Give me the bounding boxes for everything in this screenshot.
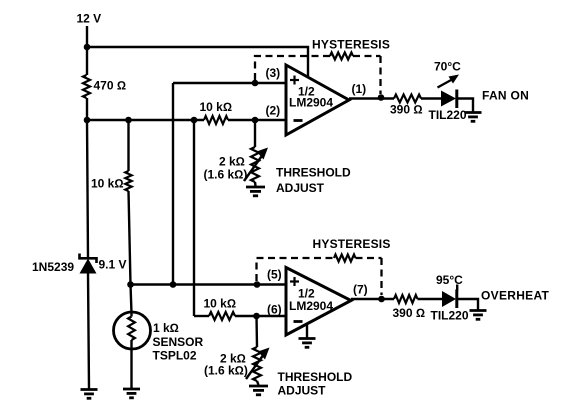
svg-text:390 Ω: 390 Ω	[393, 306, 426, 320]
junction sensor branch at node row	[125, 117, 132, 124]
wire R6 to pin 6	[235, 315, 286, 317]
svg-text:FAN ON: FAN ON	[482, 89, 529, 103]
junction top-left (12V node)	[84, 44, 91, 51]
wire U2 output	[351, 298, 394, 300]
wire 12V top power feed to op-amp U1	[87, 47, 308, 76]
wire pot1 branch	[254, 120, 256, 147]
wire R5 to LED1	[421, 97, 441, 99]
resistor R5 390 ohm	[390, 95, 423, 117]
wire R8 to LED2	[418, 298, 443, 300]
wire pot1 to ground	[254, 182, 257, 186]
ground below zener	[81, 390, 98, 399]
wire pin 5 input row	[131, 283, 287, 285]
wire rail between R1 and 9.1V node	[86, 98, 88, 120]
thermistor sensor RT1 1k TSPL02	[114, 312, 204, 389]
potentiometer R4 2k threshold adjust	[204, 147, 352, 195]
svg-text:12 V: 12 V	[77, 12, 102, 26]
svg-text:(2): (2)	[266, 104, 281, 118]
ground LED2	[470, 311, 487, 320]
resistor R3 10k (to pin 2)	[200, 100, 233, 124]
svg-text:TIL220: TIL220	[429, 108, 467, 122]
svg-text:(3): (3)	[266, 66, 281, 80]
LED D3 TIL220 (overheat indicator)	[431, 285, 469, 323]
node 12V supply label	[77, 12, 102, 26]
pin label (7)	[353, 283, 368, 297]
junction mid vertical B at node row	[191, 117, 198, 124]
svg-text:(6): (6)	[267, 303, 282, 317]
hysteresis feedback network U2 (dashed)	[257, 237, 391, 295]
svg-text:390 Ω: 390 Ω	[390, 103, 423, 117]
svg-text:1 kΩ: 1 kΩ	[153, 321, 179, 335]
svg-text:LM2904: LM2904	[289, 299, 333, 313]
resistor R1 470 ohm	[83, 75, 126, 98]
op-amp U1 1/2 LM2904	[286, 65, 349, 135]
hysteresis feedback network U1 (dashed)	[255, 37, 390, 94]
svg-text:(1.6 kΩ): (1.6 kΩ)	[204, 168, 248, 182]
pin label (3)	[266, 66, 281, 80]
svg-text:THRESHOLD: THRESHOLD	[278, 370, 353, 384]
svg-text:95°C: 95°C	[436, 273, 463, 287]
wire R6 feed corner	[194, 315, 209, 317]
junction U2 output node	[378, 296, 385, 303]
ground below pot1	[246, 187, 265, 196]
svg-text:HYSTERESIS: HYSTERESIS	[312, 37, 390, 51]
wire zener to ground	[88, 274, 89, 390]
svg-text:(7): (7)	[353, 283, 368, 297]
ground LED1	[465, 113, 482, 122]
svg-text:10 kΩ: 10 kΩ	[200, 100, 233, 114]
wire pin 3 input row	[173, 82, 286, 84]
junction sensor node (non-inverting row)	[127, 281, 134, 288]
svg-text:SENSOR: SENSOR	[153, 335, 204, 349]
pin label (6)	[267, 303, 282, 317]
svg-text:TIL220: TIL220	[431, 309, 469, 323]
svg-text:ADJUST: ADJUST	[276, 181, 325, 195]
node label 70C	[434, 60, 461, 74]
wire mid vertical B (node row to R6)	[193, 120, 195, 316]
wire U1 output	[349, 97, 394, 99]
net label FAN ON	[482, 89, 529, 103]
potentiometer R7 2k threshold adjust	[204, 347, 353, 398]
svg-text:ADJUST: ADJUST	[278, 384, 327, 398]
wire R2 to sensor node	[129, 191, 132, 313]
svg-text:10 kΩ: 10 kΩ	[91, 177, 124, 191]
wire LED1 to ground	[458, 99, 473, 113]
junction hysteresis tap pin 3	[252, 80, 259, 87]
net label OVERHEAT	[481, 289, 550, 303]
svg-text:(1): (1)	[352, 82, 367, 96]
resistor R8 390 ohm	[393, 295, 426, 320]
ground op-amp U2	[299, 339, 316, 348]
junction 9.1V node at rail	[84, 117, 91, 124]
svg-text:470 Ω: 470 Ω	[94, 79, 127, 93]
svg-text:10 kΩ: 10 kΩ	[204, 297, 237, 311]
pin label (5)	[267, 268, 282, 282]
wire pot2 branch	[255, 316, 258, 347]
ground below pot2	[249, 386, 268, 395]
pin label (1)	[352, 82, 367, 96]
wire LED2 to ground	[458, 299, 478, 310]
zener diode D1 1N5239 9.1V	[32, 254, 127, 275]
svg-text:(1.6 kΩ): (1.6 kΩ)	[204, 364, 248, 378]
wire rail down to zener	[87, 120, 88, 258]
LED D2 TIL220 (FAN ON indicator)	[429, 75, 467, 123]
junction mid vertical A at pin5 row	[170, 281, 177, 288]
wire pot2 to ground	[257, 381, 259, 385]
junction threshold pot2 tap (pin 6 side)	[253, 313, 260, 320]
resistor R6 10k (to pin 6)	[204, 297, 237, 321]
svg-text:1N5239: 1N5239	[32, 260, 74, 274]
op-amp U2 1/2 LM2904	[286, 268, 351, 336]
wire U2 V- stub to ground	[306, 324, 308, 339]
ground below sensor	[123, 389, 140, 398]
wire mid vertical A (pin3 row to pin5 row)	[172, 83, 174, 285]
junction hysteresis tap pin 5	[254, 281, 261, 288]
svg-text:(5): (5)	[267, 268, 282, 282]
junction threshold pot tap (pin 2 side)	[252, 117, 259, 124]
junction U1 output node	[378, 94, 385, 101]
svg-text:OVERHEAT: OVERHEAT	[481, 289, 550, 303]
wire 9.1V node row (inverting input row of U1)	[87, 119, 286, 121]
svg-text:HYSTERESIS: HYSTERESIS	[313, 237, 391, 251]
svg-text:TSPL02: TSPL02	[153, 349, 197, 363]
wire 12V rail top segment	[86, 26, 88, 75]
resistor R2 10k (divider)	[91, 171, 132, 191]
svg-text:THRESHOLD: THRESHOLD	[276, 166, 351, 180]
wire sensor branch upper	[127, 120, 129, 171]
node label 95C	[436, 273, 463, 287]
pin label (2)	[266, 104, 281, 118]
svg-text:9.1 V: 9.1 V	[99, 258, 127, 272]
svg-text:70°C: 70°C	[434, 60, 461, 74]
svg-text:LM2904: LM2904	[289, 96, 333, 110]
svg-text:2 kΩ: 2 kΩ	[219, 155, 245, 169]
